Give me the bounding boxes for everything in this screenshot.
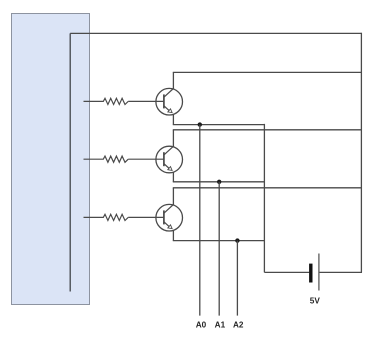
transistor Q1 bbox=[156, 88, 183, 115]
wire: A2 tap bbox=[236, 241, 238, 316]
wire: Q3 collector up bbox=[172, 188, 174, 205]
wire: block pin vertical bbox=[69, 33, 71, 291]
wire: Q2 collector bus bbox=[173, 129, 362, 131]
wire: Q2 collector up bbox=[172, 130, 174, 147]
resistor R2 bbox=[84, 156, 129, 162]
transistor Q2 bbox=[156, 146, 183, 173]
wire: Q1 collector up bbox=[172, 72, 174, 89]
resistor R1 bbox=[84, 98, 129, 104]
node A1 junction bbox=[217, 180, 221, 184]
svg-text:5V: 5V bbox=[310, 296, 321, 305]
battery BT1 negative plate bbox=[309, 264, 312, 283]
microcontroller block bbox=[12, 14, 90, 305]
wire: top supply bus bbox=[70, 32, 361, 34]
wire: right supply rail bbox=[360, 33, 362, 273]
wire: R1 to Q1 base bbox=[128, 100, 164, 102]
wire: Q2 emitter bus bbox=[173, 181, 265, 183]
battery BT1 positive plate bbox=[318, 254, 320, 291]
wire: R3 to Q3 base bbox=[128, 216, 164, 218]
node A2 junction bbox=[235, 238, 239, 242]
wire: A1 tap bbox=[218, 182, 220, 316]
resistor R3 bbox=[84, 214, 129, 220]
wire: battery positive lead bbox=[320, 271, 363, 273]
wire: Q1 emitter down bbox=[172, 114, 174, 125]
wire: A0 tap bbox=[199, 125, 201, 316]
transistor Q3 bbox=[156, 204, 183, 231]
wire: emitter return rail bbox=[263, 124, 265, 273]
wire: Q3 emitter down bbox=[172, 230, 174, 241]
svg-text:A0: A0 bbox=[196, 321, 207, 330]
wire: Q2 emitter down bbox=[172, 172, 174, 182]
wire: Q3 emitter bus bbox=[173, 240, 265, 242]
wire: battery negative lead bbox=[264, 271, 309, 273]
wire: Q3 collector bus bbox=[173, 187, 362, 189]
svg-text:A2: A2 bbox=[233, 321, 244, 330]
wire: Q1 collector bus bbox=[173, 71, 362, 73]
wire: R2 to Q2 base bbox=[128, 158, 164, 160]
node A0 junction bbox=[198, 122, 202, 126]
svg-text:A1: A1 bbox=[215, 321, 226, 330]
wire: Q1 emitter bus bbox=[173, 124, 265, 126]
